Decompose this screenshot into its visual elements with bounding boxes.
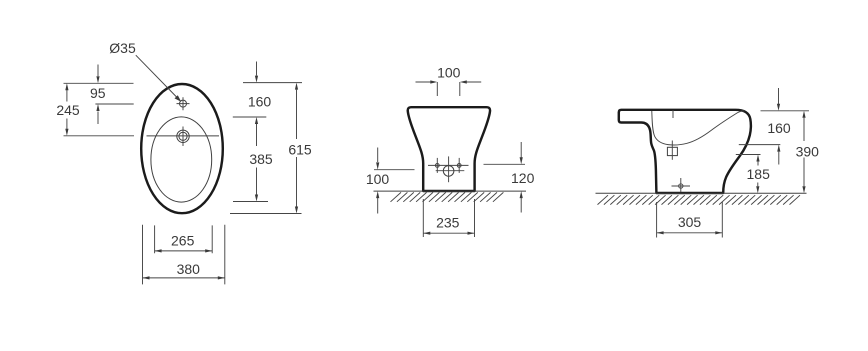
extension line inner oval top xyxy=(233,116,266,118)
leader line to small hole xyxy=(136,55,180,100)
dimension 95 : lower arrow xyxy=(97,112,99,125)
dimension 245 : extension line bottom xyxy=(64,135,135,137)
small hole crosshair xyxy=(177,97,190,110)
dimension 235 : dim line xyxy=(423,232,474,234)
svg-text:305: 305 xyxy=(678,214,702,230)
dimension 95 : extension line bottom xyxy=(95,103,133,105)
ground line side xyxy=(596,192,807,194)
ground hatching front xyxy=(391,192,504,201)
dimension 185 : top arrow xyxy=(757,162,759,166)
top slot tick xyxy=(672,110,674,118)
dimension 380 : dim line xyxy=(143,277,225,279)
leader arrowhead xyxy=(175,95,182,102)
dimension 100 top : dim lines and arrows xyxy=(416,81,482,83)
inner bowl rim curve xyxy=(652,111,745,145)
dimension 380 : extension lines xyxy=(143,225,225,285)
faucet box centerline xyxy=(671,141,673,160)
ground hatching side xyxy=(598,195,801,204)
dimension 100 left : reference line xyxy=(374,169,415,171)
svg-text:185: 185 xyxy=(747,166,771,182)
faucet box xyxy=(667,147,677,155)
right chain: extension line top of bowl xyxy=(243,82,302,84)
dimension 385 : line with arrows xyxy=(256,124,258,195)
extension line inner oval bottom xyxy=(233,201,268,203)
svg-text:160: 160 xyxy=(767,120,791,136)
dimension 390 : line with arrows xyxy=(803,118,805,187)
svg-text:245: 245 xyxy=(56,102,80,118)
dimension 265 : extension lines xyxy=(155,225,213,253)
dimension 160 side : bottom arrow xyxy=(778,152,780,165)
front body outline xyxy=(408,107,490,191)
faucet center vertical line xyxy=(448,156,450,182)
side chain: extension line top xyxy=(761,110,810,112)
horizontal centerline through faucet circle xyxy=(147,135,220,137)
dimension 615 : line with arrows xyxy=(296,90,298,207)
dimension 235 : extension lines xyxy=(423,199,474,237)
dimension 185 : bottom arrow xyxy=(757,183,759,187)
faucet crosshair vertical xyxy=(182,127,184,147)
dimension 100 left : upper arrow xyxy=(377,148,379,163)
dimension 100 top : extension ticks xyxy=(437,82,460,96)
ground line front xyxy=(374,190,527,192)
dimension 160 side : top arrow xyxy=(778,88,780,104)
dimension 120 right : reference line xyxy=(484,163,526,165)
svg-text:120: 120 xyxy=(511,170,535,186)
svg-text:265: 265 xyxy=(171,232,195,248)
svg-text:380: 380 xyxy=(177,261,201,277)
dimension 305 : dim line xyxy=(657,232,723,234)
faucet hole outer circle xyxy=(177,130,189,142)
svg-text:390: 390 xyxy=(796,143,820,159)
extension line bottom of bowl xyxy=(230,213,302,215)
dimension 160 : top arrow xyxy=(256,62,258,76)
svg-text:160: 160 xyxy=(248,93,272,109)
drain crosshair xyxy=(672,178,691,192)
dimension 245 : line xyxy=(66,90,68,130)
dimension 95 : extension line top xyxy=(64,82,134,84)
faucet hole inner circle xyxy=(179,132,187,140)
svg-text:100: 100 xyxy=(366,171,390,187)
dimension 95 : upper arrow xyxy=(97,65,99,77)
dimension 305 : extension lines xyxy=(657,202,723,238)
faucet center circle xyxy=(443,166,454,177)
dimension 100 left : lower arrow xyxy=(377,198,379,214)
svg-text:235: 235 xyxy=(436,215,460,231)
dimension 265 : dim line xyxy=(155,250,213,252)
extension line 185 level xyxy=(736,154,761,156)
outer rim ellipse xyxy=(141,84,223,213)
svg-text:615: 615 xyxy=(288,142,312,158)
dimension 120 right : lower arrow xyxy=(520,198,522,213)
extension line rim level xyxy=(739,144,781,146)
inner bowl oval xyxy=(151,117,212,202)
dimension 120 right : upper arrow xyxy=(520,142,522,158)
faucet line through center hole xyxy=(436,170,465,172)
svg-text:Ø35: Ø35 xyxy=(109,40,136,56)
small hole circle (Ø35) xyxy=(180,100,187,107)
right small hole xyxy=(457,164,461,168)
faucet line through side holes xyxy=(428,164,469,166)
svg-text:385: 385 xyxy=(249,151,273,167)
svg-text:100: 100 xyxy=(437,64,461,80)
svg-text:95: 95 xyxy=(90,85,106,101)
left small hole xyxy=(435,164,439,168)
side body outline xyxy=(619,110,751,193)
